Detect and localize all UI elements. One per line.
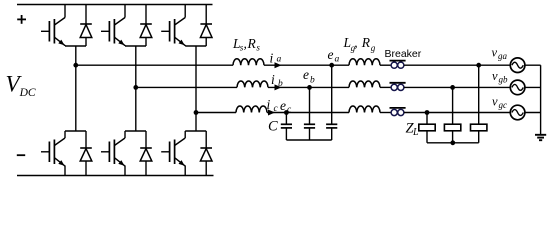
svg-text:b: b — [310, 75, 315, 85]
AC source v_ga — [510, 58, 525, 73]
node load tap phase a — [476, 63, 481, 68]
svg-text:Breaker: Breaker — [385, 48, 422, 60]
wire: upper leg 2 emitter bar — [125, 45, 146, 47]
node e_a — [329, 63, 334, 68]
ground — [535, 135, 546, 140]
current arrow i_b — [275, 84, 282, 90]
svg-text:v: v — [492, 69, 498, 83]
node load tap phase b — [450, 85, 455, 90]
resistor ZL phase c — [419, 124, 435, 131]
wire: capacitor b to star bus — [309, 128, 311, 140]
wire: phase c from ec to Lg — [286, 112, 349, 114]
wire: phase b breaker to grid source — [404, 86, 510, 88]
wire: DC positive rail — [17, 4, 213, 6]
wire: upper leg 3 emitter bar — [185, 45, 206, 47]
svg-text:a: a — [277, 55, 282, 65]
wire: DC negative rail — [17, 175, 214, 177]
node phase c inverter junction — [194, 110, 199, 115]
wire: phase c from inverter to Ls — [196, 112, 236, 114]
svg-text:R: R — [361, 35, 371, 50]
current arrow i_a — [275, 62, 282, 68]
wire: load branch phase a — [478, 65, 480, 124]
wire: phase c Lg to breaker — [380, 112, 391, 114]
svg-text:,: , — [244, 36, 247, 51]
AC source v_gc — [510, 105, 525, 120]
wire: phase c breaker to grid source — [404, 112, 510, 114]
wire: load a to star bus — [478, 131, 480, 143]
svg-text:gc: gc — [499, 100, 508, 110]
transistor Q4 (IGBT, lower leg 2) — [101, 131, 125, 176]
diode D3 (antiparallel) — [140, 5, 152, 47]
node phase a inverter junction — [73, 63, 78, 68]
node phase b inverter junction — [133, 85, 138, 90]
wire: phase b Lg to breaker — [380, 86, 391, 88]
wire: leg 3 phase vertical — [195, 46, 197, 131]
node load tap phase c — [425, 110, 430, 115]
transistor Q3 (IGBT, upper leg 2) — [101, 5, 125, 47]
diode D5 (antiparallel) — [200, 5, 212, 47]
svg-text:gb: gb — [499, 74, 509, 84]
label DC minus terminal — [17, 154, 25, 156]
svg-text:L: L — [412, 127, 419, 138]
wire: v_gc to neutral bus — [525, 112, 541, 114]
diode D6 (antiparallel) — [200, 131, 212, 176]
transistor Q2 (IGBT, lower leg 1) — [41, 131, 65, 176]
svg-text:v: v — [492, 46, 498, 60]
svg-text:e: e — [280, 98, 286, 113]
wire: grid neutral bus — [540, 65, 542, 134]
transistor Q6 (IGBT, lower leg 3) — [161, 131, 185, 176]
capacitor C phase a — [326, 124, 337, 128]
wire: lower leg 1 collector bar — [65, 130, 86, 132]
AC source v_gb — [510, 80, 525, 95]
breaker phase a — [390, 61, 406, 69]
wire: load branch phase b — [452, 87, 454, 124]
wire: phase a from ea to Lg — [332, 64, 349, 66]
capacitor C phase c — [281, 124, 292, 128]
svg-text:i: i — [270, 50, 274, 65]
svg-text:C: C — [268, 119, 278, 135]
wire: phase a from Ls to ea — [264, 64, 332, 66]
inductor Ls phase c — [236, 106, 267, 112]
svg-text:v: v — [492, 95, 498, 109]
node e_c — [284, 110, 289, 115]
inductor Lg phase c — [349, 106, 380, 112]
svg-text:c: c — [287, 105, 292, 115]
svg-text:R: R — [247, 36, 257, 51]
wire: phase b from eb to Lg — [310, 86, 350, 88]
svg-text:e: e — [303, 67, 309, 82]
wire: phase a from inverter to Ls — [76, 64, 233, 66]
wire: v_gb to neutral bus — [525, 86, 541, 88]
wire: capacitor a to star bus — [331, 128, 333, 140]
inductor Lg phase b — [349, 81, 380, 87]
wire: leg 2 phase vertical — [135, 46, 137, 131]
svg-text:ga: ga — [498, 51, 508, 61]
wire: phase b from Ls to eb — [268, 86, 310, 88]
wire: phase b from inverter to Ls — [136, 86, 237, 88]
wire: lower leg 2 collector bar — [125, 130, 146, 132]
capacitor C phase b — [304, 124, 315, 128]
svg-text:,: , — [354, 35, 357, 50]
wire: capacitor branch e_b — [309, 87, 311, 124]
svg-text:VDC: VDC — [6, 72, 36, 100]
transistor Q1 (IGBT, upper leg 1) — [41, 5, 65, 47]
current arrow i_c — [268, 110, 275, 116]
diode D1 (antiparallel) — [80, 5, 92, 47]
wire: capacitor branch e_a — [331, 65, 333, 124]
svg-text:i: i — [267, 97, 271, 112]
wire: load c to star bus — [426, 131, 428, 143]
wire: load branch phase c — [426, 113, 428, 125]
svg-text:s: s — [256, 43, 260, 53]
breaker phase b — [390, 83, 406, 91]
inductor Lg phase a — [349, 59, 380, 65]
breaker phase c — [390, 108, 406, 116]
node load star point — [450, 140, 455, 145]
node e_b — [307, 85, 312, 90]
wire: v_ga to neutral bus — [525, 64, 541, 66]
svg-text:a: a — [335, 54, 340, 64]
label Ls, Rs — [232, 36, 260, 53]
wire: phase c from Ls to ec — [267, 112, 286, 114]
diode D4 (antiparallel) — [140, 131, 152, 176]
resistor ZL phase a — [471, 124, 487, 131]
inductor Ls phase b — [237, 81, 268, 87]
inductor Ls phase a — [233, 59, 264, 65]
svg-text:e: e — [328, 47, 334, 62]
wire: leg 1 phase vertical — [75, 46, 77, 131]
diode D2 (antiparallel) — [80, 131, 92, 176]
svg-text:i: i — [271, 72, 275, 87]
wire: load star bus — [427, 142, 479, 144]
wire: capacitor c to star bus — [285, 128, 287, 140]
transistor Q5 (IGBT, upper leg 3) — [161, 5, 185, 47]
wire: lower leg 3 collector bar — [185, 130, 206, 132]
label Lg, Rg — [343, 35, 376, 53]
wire: capacitor star bus — [286, 139, 331, 141]
label DC plus terminal — [17, 15, 26, 24]
svg-text:b: b — [278, 79, 283, 89]
wire: phase a breaker to grid source — [404, 64, 510, 66]
wire: load b to star bus — [452, 131, 454, 143]
wire: upper leg 1 emitter bar — [65, 45, 86, 47]
wire: capacitor branch e_c — [285, 113, 287, 125]
wire: phase a Lg to breaker — [380, 64, 391, 66]
svg-text:g: g — [371, 43, 376, 53]
resistor ZL phase b — [444, 124, 460, 131]
